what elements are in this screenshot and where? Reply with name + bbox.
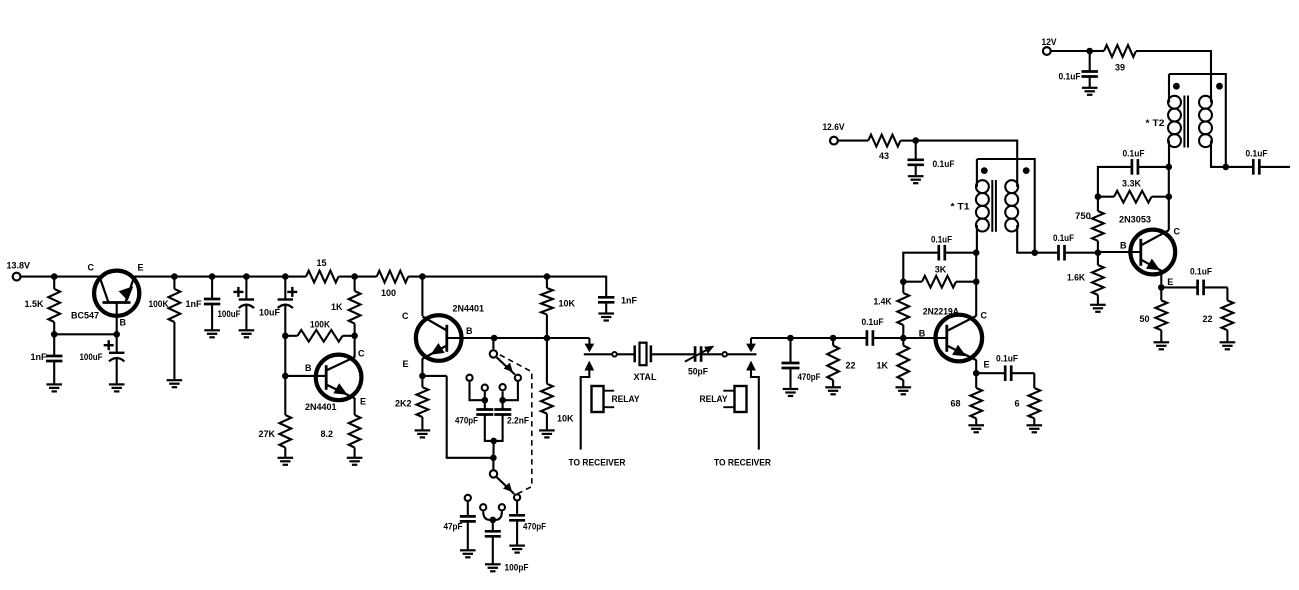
- resistor R11 10K lower: [541, 338, 574, 430]
- ground for R20: [1090, 305, 1106, 312]
- node RELAY label left: [612, 394, 640, 404]
- wire base node to Q5: [1098, 251, 1142, 253]
- resistor R4 100: [377, 271, 409, 298]
- transformer T1 phase dot secondary: [1023, 167, 1030, 174]
- wire cap bottoms to emitter bus: [485, 415, 503, 462]
- capacitor C20 0.1uF emitter 2: [1161, 267, 1227, 296]
- wire terminal to relay right: [728, 353, 757, 355]
- ground for C17: [908, 176, 924, 183]
- transformer T2 secondary winding: [1199, 96, 1212, 147]
- wire Q3 base line to relay: [447, 337, 590, 339]
- resistor R5 1K: [331, 277, 361, 336]
- svg-text:8.2: 8.2: [320, 429, 333, 439]
- svg-text:50pF: 50pF: [688, 367, 708, 377]
- svg-text:470pF: 470pF: [455, 416, 478, 426]
- resistor R8 8.2: [320, 415, 360, 458]
- switch S1b contact 2: [480, 504, 486, 510]
- node T1 label: [951, 202, 970, 212]
- capacitor C6 1nF at rail end: [598, 276, 638, 314]
- wire junction 470pF input: [787, 335, 794, 342]
- capacitor C15 0.1uF feedback: [903, 235, 976, 282]
- svg-text:C: C: [358, 349, 365, 359]
- svg-text:1nF: 1nF: [186, 299, 203, 309]
- wire junction 10K top at rail: [544, 273, 551, 280]
- wire relay right to 2219A input: [751, 337, 791, 339]
- resistor R9 2K2: [395, 376, 428, 430]
- switch S1b wiper arm: [497, 477, 515, 494]
- wire contacts 1+2 to 470pF: [470, 382, 489, 410]
- transformer T1 secondary winding: [1005, 180, 1018, 231]
- capacitor C16 0.1uF emitter: [976, 354, 1034, 382]
- capacitor C19 0.1uF feedback 2: [1098, 149, 1169, 197]
- svg-text:B: B: [120, 317, 127, 327]
- wire 1.5K bottom to base node: [51, 331, 117, 338]
- wire junction collector T1: [973, 249, 980, 256]
- resistor R17 6: [1014, 373, 1040, 425]
- wire Q2 collector to 1K bottom: [354, 336, 356, 358]
- svg-text:1.5K: 1.5K: [24, 299, 44, 309]
- resistor R7 27K: [258, 376, 291, 458]
- wire 15 to 100: [339, 273, 377, 280]
- capacitor C1 1nF: [30, 334, 62, 384]
- svg-text:0.1uF: 0.1uF: [1246, 149, 1268, 159]
- svg-text:E: E: [984, 360, 990, 370]
- ground for R16: [968, 425, 984, 432]
- switch S1b contact 1: [465, 495, 471, 501]
- resistor R20 1.6K: [1067, 253, 1104, 305]
- wire 22 to coupling cap: [833, 337, 867, 339]
- svg-text:0.1uF: 0.1uF: [1059, 72, 1081, 82]
- svg-text:B: B: [466, 326, 473, 336]
- resistor R1 1.5K: [24, 277, 60, 335]
- wire T2 primary bottom to collector: [1168, 141, 1170, 167]
- svg-text:2N3053: 2N3053: [1119, 215, 1151, 225]
- svg-text:2N4401: 2N4401: [305, 402, 337, 412]
- wire Q5 collector up: [1166, 164, 1173, 231]
- transformer T2 top link: [1169, 74, 1226, 167]
- resistor R24 39: [1090, 45, 1136, 72]
- ground for C13: [783, 389, 799, 396]
- capacitor C22 0.1uF output: [1246, 149, 1268, 175]
- node 12V supply terminal: [1042, 37, 1057, 55]
- node T2 label: [1146, 118, 1165, 128]
- capacitor C8 2.2nF: [494, 410, 529, 426]
- resistor R23 22: [1202, 287, 1233, 342]
- transformer T1 top link: [977, 159, 1035, 253]
- wire junction 1.4K top 3K left: [900, 278, 907, 285]
- wire junction Q3 collector at rail: [419, 273, 426, 280]
- wire 13.8V to BC547 collector: [21, 276, 100, 278]
- svg-text:B: B: [305, 363, 312, 373]
- svg-text:2N4401: 2N4401: [453, 304, 485, 314]
- transistor Q3 2N4401: [402, 277, 484, 369]
- transformer T1 phase dot primary: [981, 167, 988, 174]
- transformer T1 core: [992, 180, 996, 232]
- resistor R22 50 emitter: [1139, 271, 1167, 342]
- node TO RECEIVER label right: [714, 458, 771, 468]
- svg-text:39: 39: [1115, 63, 1125, 73]
- ground for R12: [825, 387, 841, 394]
- svg-text:12.6V: 12.6V: [823, 122, 845, 132]
- capacitor C7 470pF: [455, 410, 493, 426]
- switch S1b contact 3: [499, 504, 505, 510]
- svg-text:100K: 100K: [310, 320, 330, 330]
- capacitor C11 470pF: [509, 502, 546, 546]
- dashed mechanical link of band switch: [500, 355, 532, 494]
- svg-text:100K: 100K: [149, 299, 169, 309]
- svg-text:1nF: 1nF: [621, 296, 638, 306]
- transistor Q2 2N4401: [305, 349, 366, 413]
- svg-text:* T1: * T1: [951, 202, 970, 212]
- capacitor C17 0.1uF decoupling: [908, 141, 955, 176]
- ground for R7: [278, 458, 294, 465]
- svg-text:15: 15: [316, 258, 326, 268]
- wire junction collector 3K: [973, 278, 980, 285]
- ground for R11: [539, 430, 555, 437]
- svg-text:B: B: [1120, 241, 1127, 251]
- svg-text:100pF: 100pF: [505, 563, 529, 573]
- svg-text:E: E: [360, 397, 366, 407]
- resistor R6 100K horizontal: [285, 320, 354, 342]
- wire 43 to decoupling node: [901, 137, 1018, 187]
- wire cap to 2N3053 base node: [1064, 249, 1102, 256]
- resistor R14 1K bias: [876, 338, 909, 387]
- svg-text:RELAY: RELAY: [700, 394, 728, 404]
- variable capacitor C12 50pF trimmer: [685, 346, 722, 377]
- transformer T2 primary winding: [1168, 74, 1181, 147]
- crystal X1 XTAL: [634, 343, 695, 382]
- svg-text:470pF: 470pF: [798, 372, 821, 382]
- transformer T2 phase dot primary: [1173, 83, 1180, 90]
- svg-text:50: 50: [1139, 314, 1149, 324]
- resistor R16 68 emitter: [950, 360, 982, 425]
- svg-text:2.2nF: 2.2nF: [507, 416, 529, 426]
- svg-text:10K: 10K: [557, 414, 574, 424]
- switch S1b rotary common: [490, 458, 497, 478]
- resistor R21 3.3K feedback 2: [1098, 179, 1172, 203]
- wire relay right moving contact: [746, 338, 756, 352]
- wire emitter rail BC547 to 10uF: [134, 276, 306, 278]
- relay K2 coil box: [723, 386, 746, 412]
- svg-text:3K: 3K: [935, 265, 947, 275]
- resistor R15 3K feedback: [903, 265, 976, 288]
- relay right throw to receiver: [746, 361, 759, 450]
- wire T2 out to cap: [1226, 166, 1254, 168]
- wire contacts 2+3 join: [483, 511, 502, 523]
- svg-text:6: 6: [1014, 399, 1019, 409]
- svg-text:470pF: 470pF: [523, 522, 546, 532]
- wire 12V to decoupling node: [1051, 48, 1093, 55]
- ground for R17: [1027, 425, 1043, 432]
- wire Q2 emitter to 8.2: [354, 398, 356, 415]
- transistor Q5 2N3053: [1119, 215, 1181, 288]
- svg-text:3.3K: 3.3K: [1122, 179, 1141, 189]
- node 12.6V supply terminal: [823, 122, 845, 145]
- svg-text:68: 68: [950, 399, 960, 409]
- wire junction at 1.5K top: [51, 273, 58, 280]
- wire arrow tip to terminal: [584, 353, 612, 355]
- svg-text:XTAL: XTAL: [634, 372, 657, 382]
- resistor R19 750: [1075, 197, 1104, 253]
- transistor Q1 BC547: [71, 263, 144, 335]
- svg-text:10uF: 10uF: [259, 308, 280, 318]
- resistor R10 10K upper: [541, 277, 576, 338]
- wire 39 to T2: [1136, 51, 1211, 103]
- svg-text:12V: 12V: [1042, 37, 1057, 47]
- capacitor C3 1nF: [186, 277, 221, 330]
- svg-text:1K: 1K: [331, 302, 343, 312]
- capacitor C10 100pF: [485, 520, 529, 573]
- transformer T2 phase dot secondary: [1216, 83, 1223, 90]
- ground for C2: [109, 384, 125, 391]
- switch S1a rotary common: [490, 338, 497, 358]
- svg-text:1K: 1K: [876, 361, 888, 371]
- capacitor C14 0.1uF coupling: [862, 317, 884, 346]
- svg-text:C: C: [88, 263, 95, 273]
- wire input to 22: [791, 335, 837, 342]
- wire T1 primary bottom to collector: [976, 225, 978, 253]
- resistor R2 100K: [149, 277, 181, 380]
- capacitor C18 0.1uF interstage: [1053, 233, 1074, 261]
- svg-text:TO RECEIVER: TO RECEIVER: [569, 458, 626, 468]
- resistor R12 22 input: [827, 338, 855, 387]
- svg-text:100uF: 100uF: [80, 352, 103, 362]
- svg-text:43: 43: [879, 151, 889, 161]
- capacitor C21 0.1uF decoupling 2: [1059, 51, 1098, 88]
- resistor R18 43: [868, 135, 900, 161]
- ground for C9: [460, 550, 476, 557]
- svg-text:22: 22: [846, 361, 856, 371]
- svg-text:27K: 27K: [258, 429, 275, 439]
- node terminal small circle left of XTAL: [612, 352, 617, 357]
- transformer T1 primary winding: [976, 159, 989, 232]
- wire base node to Q4: [903, 337, 948, 339]
- wire junction switch S1a common: [491, 335, 498, 342]
- svg-text:2N2219A: 2N2219A: [923, 307, 959, 317]
- resistor R13 1.4K: [874, 282, 910, 338]
- capacitor C13 470pF input: [782, 338, 821, 389]
- svg-text:E: E: [1167, 277, 1173, 287]
- ground for R23: [1220, 342, 1236, 349]
- wire T1 secondary bottom out: [1017, 225, 1038, 256]
- svg-text:C: C: [1174, 227, 1181, 237]
- svg-text:TO RECEIVER: TO RECEIVER: [714, 458, 771, 468]
- ground for C10: [485, 564, 501, 571]
- ground for R9: [415, 430, 431, 437]
- svg-text:E: E: [138, 263, 144, 273]
- wire coupling cap to base node: [872, 335, 907, 342]
- svg-text:22: 22: [1202, 314, 1212, 324]
- ground for C21: [1082, 88, 1098, 95]
- svg-text:C: C: [981, 311, 988, 321]
- svg-text:2K2: 2K2: [395, 399, 412, 409]
- svg-text:RELAY: RELAY: [612, 394, 640, 404]
- wire contacts 3+4 to 2.2nF: [499, 382, 518, 410]
- svg-text:BC547: BC547: [71, 311, 99, 321]
- svg-text:750: 750: [1075, 211, 1091, 221]
- svg-text:0.1uF: 0.1uF: [862, 317, 884, 327]
- relay left throw to receiver: [581, 361, 595, 450]
- svg-text:100: 100: [381, 288, 396, 298]
- switch S1a contact 4: [515, 375, 521, 381]
- svg-text:0.1uF: 0.1uF: [933, 159, 955, 169]
- wire junction base line 10K: [544, 335, 551, 342]
- wire T2 secondary bottom out: [1211, 141, 1229, 171]
- wire junction 100K top: [171, 273, 178, 280]
- ground for R14: [896, 387, 912, 394]
- svg-text:13.8V: 13.8V: [7, 261, 31, 271]
- svg-text:0.1uF: 0.1uF: [996, 354, 1018, 364]
- wire 100 to rail right: [408, 276, 606, 278]
- wire Q4 collector up: [975, 253, 977, 316]
- node RELAY label right: [700, 394, 728, 404]
- ground for R2: [167, 380, 183, 387]
- switch S1b contact 4: [514, 494, 520, 500]
- wire 10uF node down to Q2 base: [282, 336, 328, 379]
- svg-text:E: E: [402, 359, 408, 369]
- svg-text:* T2: * T2: [1146, 118, 1165, 128]
- node 13.8V supply terminal: [7, 261, 31, 281]
- wire Q3 emitter down: [419, 359, 426, 380]
- svg-text:C: C: [402, 311, 409, 321]
- wire T1 out to coupling cap: [1035, 252, 1059, 254]
- capacitor C2 100uF polarized: [80, 334, 125, 384]
- svg-text:1.4K: 1.4K: [874, 297, 892, 307]
- ground for C3: [204, 330, 220, 337]
- wire junction 1nF top: [209, 273, 216, 280]
- capacitor C5 10uF polarized: [259, 273, 297, 335]
- svg-text:1nF: 1nF: [30, 352, 47, 362]
- svg-text:10K: 10K: [559, 299, 576, 309]
- ground for R8: [347, 458, 363, 465]
- svg-text:0.1uF: 0.1uF: [1190, 267, 1212, 277]
- svg-text:0.1uF: 0.1uF: [1123, 149, 1145, 159]
- transistor Q4 2N2219A: [919, 307, 990, 370]
- svg-text:0.1uF: 0.1uF: [1053, 233, 1074, 243]
- ground for C6: [598, 314, 614, 321]
- switch S1a contact 1: [466, 375, 472, 381]
- wire relay left moving contact: [585, 338, 595, 352]
- switch S1a contact 3: [500, 384, 506, 390]
- ground for R22: [1154, 342, 1170, 349]
- ground for C11: [509, 546, 525, 553]
- transformer T2 core: [1184, 96, 1188, 148]
- svg-text:47pF: 47pF: [444, 522, 463, 532]
- capacitor C9 47pF: [444, 502, 476, 550]
- ground for C4: [239, 330, 255, 337]
- switch S1a contact 2: [482, 385, 488, 391]
- wire terminal to XTAL: [617, 353, 634, 355]
- wire junction 1K bottom / 100K right: [351, 333, 358, 340]
- ground for C1: [46, 384, 62, 391]
- wire output: [1259, 166, 1291, 168]
- capacitor C4 100uF polarized: [218, 273, 255, 330]
- svg-text:100uF: 100uF: [218, 309, 241, 319]
- resistor R3 15: [306, 258, 339, 283]
- wire emitter to switch bus: [422, 376, 493, 458]
- relay K1 coil box: [592, 386, 615, 412]
- svg-text:B: B: [919, 329, 926, 339]
- svg-text:0.1uF: 0.1uF: [931, 235, 952, 245]
- wire junction base BC547: [113, 331, 120, 338]
- svg-text:1.6K: 1.6K: [1067, 273, 1085, 283]
- wire 12.6V to 43: [838, 140, 868, 142]
- node TO RECEIVER label left: [569, 458, 626, 468]
- wire junction 10uF bottom node: [282, 333, 289, 340]
- switch S1a wiper arm: [497, 357, 515, 374]
- wire junction 750 top: [1095, 193, 1102, 200]
- node terminal small circle right of 50pF: [722, 352, 727, 357]
